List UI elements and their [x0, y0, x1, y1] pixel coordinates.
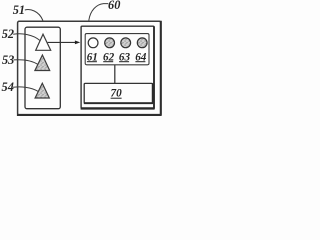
- emitter triangle 3 (shaded): [35, 83, 49, 98]
- signal arrow from triangle 1 to box 60: [48, 41, 76, 43]
- lamp 63 (shaded circle): [121, 38, 131, 48]
- svg-text:54: 54: [2, 80, 14, 94]
- indicator panel box (contains lamps 61-64): [85, 34, 149, 65]
- box 60 thick bottom edge (shadow): [81, 107, 155, 109]
- outer housing box (unit enclosure): [18, 21, 161, 115]
- lamp 62 (shaded circle): [105, 38, 115, 48]
- box 51 (transmitter box with triangles): [25, 27, 60, 109]
- emitter triangle 1 (white): [36, 34, 51, 50]
- svg-text:53: 53: [2, 53, 14, 67]
- lamp 64 (shaded circle): [137, 38, 147, 48]
- outer housing box thick bottom edge: [17, 114, 162, 116]
- svg-text:60: 60: [108, 0, 120, 12]
- box 70 thick right edge: [152, 83, 154, 103]
- leader 51: [25, 10, 43, 21]
- leader 52: [13, 34, 40, 41]
- svg-text:51: 51: [13, 3, 25, 17]
- leader 53: [14, 60, 38, 65]
- connector wire from indicator panel to display 70: [114, 65, 116, 83]
- outer housing box thick right edge: [160, 21, 162, 116]
- box 70 (display): [84, 83, 152, 103]
- leader 60: [89, 4, 109, 21]
- svg-text:52: 52: [2, 27, 14, 41]
- box 70 thick bottom edge: [84, 102, 153, 104]
- emitter triangle 2 (shaded): [35, 55, 50, 71]
- lamp 61 (white circle): [88, 38, 98, 48]
- box 60 (receiver unit): [81, 26, 154, 108]
- box 60 thick right edge (shadow): [153, 26, 155, 108]
- leader 54: [13, 87, 38, 92]
